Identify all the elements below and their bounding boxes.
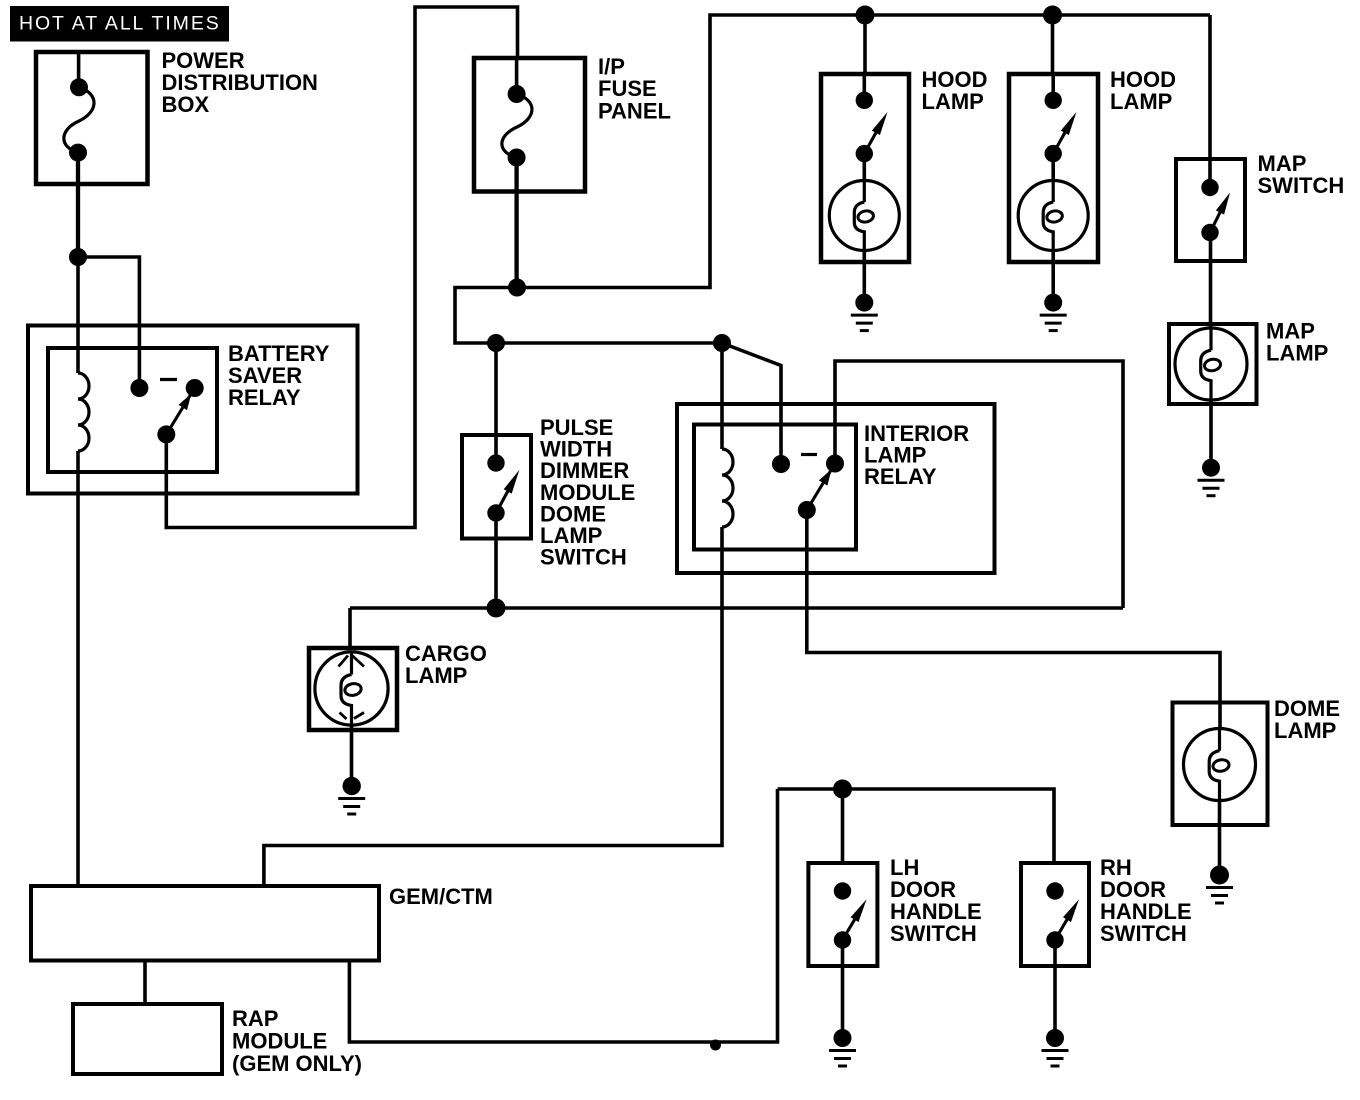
bulb (hood lamp 1) [829, 181, 899, 251]
wire: hood lamp 2 internal feed [1051, 74, 1055, 92]
relay linkage dash (interior lamp relay) [801, 453, 817, 456]
bulb (cargo lamp) [315, 652, 388, 725]
svg-text:HOODLAMP: HOODLAMP [1110, 67, 1176, 114]
ground (cargo lamp) [343, 777, 361, 795]
wire: map lamp to ground [1209, 400, 1213, 459]
wire: hood lamp 1 to ground [862, 250, 866, 295]
node D junction (722,343) [713, 334, 731, 352]
wire: fuse panel internal feed [515, 58, 519, 86]
map lamp box [1169, 324, 1257, 404]
wire: LH door handle switch to ground [841, 940, 845, 1030]
relay contact terminal left (interior lamp relay) [772, 455, 790, 473]
GEM/CTM box [31, 886, 379, 961]
wire: bus to LH door handle switch [841, 789, 845, 863]
svg-text:HOODLAMP: HOODLAMP [922, 67, 988, 114]
ground (hood lamp 2) [1044, 294, 1062, 312]
switch blade (dimmer switch) [496, 489, 509, 513]
cargo lamp box [309, 648, 397, 730]
ground (map lamp) [1202, 459, 1220, 477]
fuse F1 (power distribution box) [70, 78, 88, 96]
wire: RH door handle switch to ground [1053, 940, 1057, 1030]
wire: battery saver coil to GEM/CTM [76, 451, 80, 886]
switch terminal (LH door handle switch bottom) [834, 931, 851, 948]
relay linkage dash (battery saver relay) [160, 378, 177, 381]
node G junction (842.5,789) [833, 780, 852, 799]
wire: feed to hood lamp 2 [1051, 15, 1055, 74]
switch blade (hood lamp 1) [864, 130, 877, 153]
node: hood lamp 1 tap [856, 6, 875, 25]
switch terminal (map switch bottom) [1201, 224, 1218, 241]
fuse F2 (I/P fuse panel) [508, 85, 526, 103]
switch blade (hood lamp 2) [1053, 130, 1066, 153]
terminal (LH door handle switch top) [834, 882, 851, 899]
svg-text:DOMELAMP: DOMELAMP [1274, 696, 1340, 743]
relay contact terminal right (interior lamp relay) [826, 455, 844, 473]
ground (hood lamp 1) [855, 294, 873, 312]
relay coil (battery saver relay) [78, 373, 89, 451]
wire: map switch to map lamp [1209, 233, 1213, 330]
relay common terminal (interior lamp relay) [798, 501, 816, 519]
node F small junction (716,1042) [710, 1040, 721, 1051]
node: HOT AT ALL TIMES power label [10, 6, 229, 42]
RH door handle switch box [1021, 863, 1089, 966]
power distribution box [36, 52, 148, 184]
LH door handle switch box [808, 863, 877, 966]
relay contact terminal left (battery saver relay) [130, 379, 148, 397]
relay contact terminal right (battery saver relay) [186, 379, 204, 397]
I/P fuse panel box [474, 58, 585, 192]
dome lamp box [1173, 703, 1268, 826]
interior lamp relay inner box [694, 425, 856, 550]
node A junction (78,257) [69, 248, 87, 266]
wire: GEM/CTM to door handle switch bus [349, 789, 777, 1042]
ground (RH door handle switch) [1046, 1029, 1064, 1047]
wire: feed to hood lamp 1 [863, 15, 867, 74]
hood lamp 1 box [821, 74, 909, 262]
hood lamp 2 box [1009, 74, 1098, 262]
wire: main feed down to battery saver coil [76, 257, 80, 373]
wire: junction to battery saver relay contact [78, 257, 139, 388]
svg-text:HOT AT ALL TIMES: HOT AT ALL TIMES [19, 12, 221, 34]
wire: dome lamp to ground [1218, 800, 1222, 866]
bulb (hood lamp 2) [1018, 181, 1088, 251]
RAP module box [73, 1004, 222, 1074]
terminal (hood lamp 2 top) [1045, 92, 1062, 109]
relay switch blade (battery saver relay) [166, 395, 190, 434]
node B junction (517,287.5) [508, 279, 526, 297]
switch terminal (dimmer switch bottom) [487, 504, 504, 521]
wire: power box internal feed [77, 52, 81, 80]
switch terminal (RH door handle switch bottom) [1046, 931, 1063, 948]
wire: lamp bus to cargo lamp [348, 608, 352, 650]
wire: hood lamp 1 internal feed [862, 74, 866, 92]
bulb (map lamp) [1175, 328, 1247, 400]
wire: hood lamp 1 switch to bulb [862, 154, 866, 181]
wire: door handle switch bus [778, 789, 1055, 863]
wire: interior relay NO contact to lamp bus [835, 361, 1123, 608]
relay switch blade (interior lamp relay) [807, 471, 831, 511]
battery saver relay outer box [28, 326, 358, 494]
wire: junction C to dimmer switch [494, 343, 498, 463]
wire: fuse panel output [514, 158, 518, 288]
relay common terminal (battery saver relay) [157, 425, 175, 443]
ground (LH door handle switch) [834, 1029, 852, 1047]
wire: junction B to hood lamps bus [517, 15, 1210, 288]
terminal (dimmer switch top) [487, 454, 504, 471]
bulb (dome lamp) [1184, 729, 1256, 801]
wire: cargo lamp to ground [350, 725, 354, 778]
switch terminal (hood lamp 2) [1045, 145, 1062, 162]
wire: junction D to interior relay coil [720, 343, 724, 449]
node: hood lamp 2 tap [1043, 6, 1062, 25]
wire: junction B to dimmer/relay feed line [455, 288, 722, 344]
wire: hood lamp 2 to ground [1051, 250, 1055, 295]
wire: interior relay common to dome lamp [807, 510, 1220, 729]
switch blade (map switch) [1210, 210, 1221, 232]
terminal (RH door handle switch top) [1046, 882, 1063, 899]
wire: map switch internal feed [1208, 159, 1212, 180]
wire: switched lamp bus [350, 606, 1123, 610]
terminal (hood lamp 1 top) [856, 92, 873, 109]
pulse width dimmer module dome lamp switch box [462, 435, 531, 539]
wire: hood lamp 2 switch to bulb [1051, 154, 1055, 181]
switch blade (RH door handle switch) [1055, 917, 1068, 940]
wire: GEM/CTM to RAP module [143, 961, 147, 1005]
svg-text:GEM/CTM: GEM/CTM [389, 884, 493, 909]
battery saver relay inner box [48, 348, 217, 472]
wire: interior relay coil to GEM/CTM [264, 527, 722, 886]
terminal (map switch top) [1201, 179, 1218, 196]
wire: battery saver relay output to I/P fuse panel [166, 7, 517, 528]
node E junction (496,608) [487, 599, 506, 618]
map switch box [1176, 159, 1245, 261]
interior lamp relay outer box [677, 404, 995, 573]
switch blade (LH door handle switch) [843, 917, 857, 940]
node C junction (496,343) [487, 334, 505, 352]
wire: power box output [76, 153, 80, 257]
relay coil (interior lamp relay) [722, 449, 733, 527]
switch terminal (hood lamp 1) [856, 145, 873, 162]
wire: junction D diagonal to relay contact [722, 343, 781, 464]
wire: feed to map switch [1208, 15, 1212, 159]
ground (dome lamp) [1210, 866, 1229, 885]
wire: dimmer switch output [494, 513, 498, 608]
